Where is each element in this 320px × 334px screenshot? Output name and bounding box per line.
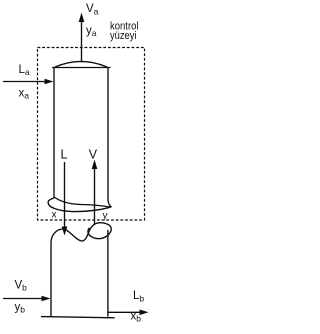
svg-text:yüzeyi: yüzeyi: [110, 30, 137, 42]
svg-text:y: y: [103, 211, 108, 222]
svg-text:x: x: [52, 210, 57, 221]
svg-text:V: V: [89, 148, 98, 162]
svg-text:L: L: [61, 148, 68, 162]
